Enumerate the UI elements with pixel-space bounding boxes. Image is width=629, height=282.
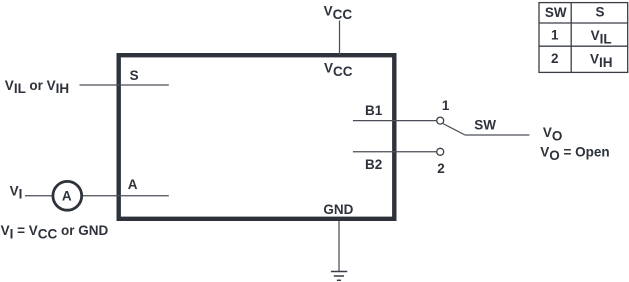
- svg-text:A: A: [62, 189, 72, 204]
- wire VCC to box: [339, 21, 341, 56]
- wire VO: [465, 134, 529, 136]
- svg-text:VIL or VIH: VIL or VIH: [5, 78, 69, 96]
- svg-text:VIL: VIL: [591, 28, 612, 46]
- switch SW lever: [443, 124, 465, 136]
- svg-text:VCC: VCC: [324, 3, 353, 21]
- svg-text:VI = VCC or GND: VI = VCC or GND: [1, 223, 109, 241]
- svg-text:S: S: [595, 5, 604, 20]
- svg-text:S: S: [130, 68, 139, 83]
- wire A: [25, 195, 169, 197]
- wire GND: [338, 221, 340, 271]
- svg-text:VO: VO: [543, 125, 563, 143]
- svg-text:GND: GND: [323, 202, 353, 217]
- ground: [331, 272, 347, 281]
- svg-text:2: 2: [551, 51, 559, 66]
- svg-text:VO = Open: VO = Open: [540, 145, 609, 163]
- svg-text:VIH: VIH: [590, 52, 613, 70]
- wire S: [80, 84, 169, 86]
- svg-text:SW: SW: [474, 118, 496, 133]
- svg-text:1: 1: [442, 98, 450, 113]
- switch contact 1: [437, 117, 444, 124]
- svg-text:1: 1: [551, 28, 559, 43]
- svg-text:SW: SW: [545, 5, 567, 20]
- switch contact 2: [437, 148, 444, 155]
- svg-text:VCC: VCC: [324, 60, 353, 78]
- ammeter A1: [53, 181, 82, 210]
- table SW/S: [539, 3, 628, 73]
- wire B1: [353, 120, 437, 122]
- wire B2: [353, 151, 437, 153]
- svg-text:B1: B1: [365, 103, 383, 118]
- svg-text:2: 2: [437, 161, 445, 176]
- svg-text:VI: VI: [10, 183, 23, 201]
- svg-text:B2: B2: [365, 157, 382, 172]
- svg-text:A: A: [128, 177, 138, 192]
- DUT box: [119, 55, 395, 219]
